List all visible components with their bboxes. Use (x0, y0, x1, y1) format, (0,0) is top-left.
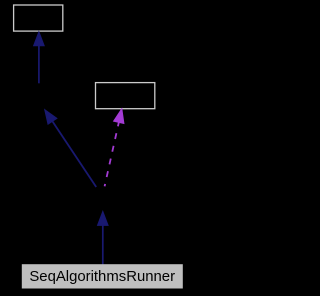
svg-text:SeqAlgorithmsRunner: SeqAlgorithmsRunner (29, 269, 175, 285)
edge A to Box2 (dashed usage arrow, purple) (105, 109, 124, 187)
arrowhead at Box1 bottom (34, 32, 45, 46)
node Box1 (empty base-class box, top-left) (14, 5, 63, 31)
arrowhead at B bottom (45, 110, 57, 125)
wire dashed line (105, 122, 119, 186)
wire diagonal line (52, 121, 96, 187)
node SeqAlgorithmsRunner (current class, filled gray) (22, 264, 183, 288)
arrowhead at Box2 bottom (114, 109, 124, 124)
edge B to Box1 (solid inheritance arrow, vertical) (34, 32, 45, 84)
edge SeqAlgorithmsRunner to A (solid inheritance arrow, vertical) (98, 211, 109, 264)
node Box2 (empty used-class box, middle-right) (96, 83, 155, 109)
wire vertical line (102, 225, 104, 264)
arrowhead at A bottom (98, 211, 109, 225)
edge A to B (solid inheritance arrow, diagonal) (45, 110, 96, 187)
wire vertical line (38, 46, 40, 84)
